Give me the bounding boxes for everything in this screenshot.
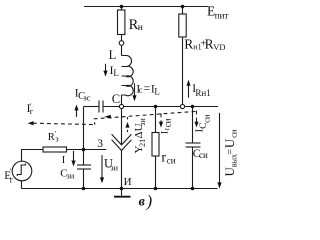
junction dot Cси rail [191, 187, 195, 191]
svg-text:Rн1: Rн1 [195, 88, 210, 98]
label Uзи [104, 157, 119, 173]
label Uвых=Uси rotated [222, 129, 238, 176]
wire R'з to gate stub [67, 149, 107, 151]
dependent source Y21dUзи chevrons [112, 134, 132, 150]
arrow IL [105, 64, 107, 71]
svg-text:r: r [161, 151, 166, 166]
arrow ICзс [76, 110, 78, 117]
junction dot rси rail [154, 187, 158, 191]
svg-text:си: си [199, 150, 208, 160]
svg-text:вых: вых [229, 154, 238, 167]
wire node C to node D [124, 106, 181, 108]
svg-text:=: = [225, 149, 236, 155]
junction dot Cзи rail [82, 187, 86, 191]
arrow IRн1 [188, 86, 190, 98]
resistor R'з [43, 147, 67, 152]
capacitor Cзи [77, 165, 91, 189]
svg-text:зи: зи [66, 170, 74, 180]
label I'г [27, 102, 34, 116]
svg-text:г: г [10, 174, 14, 184]
wire top rail [84, 6, 209, 8]
arrowhead on sloped dashed line [104, 115, 111, 119]
junction dot Y21 rail [120, 187, 124, 191]
svg-text:И: И [124, 176, 132, 188]
svg-text:I: I [62, 155, 66, 166]
label E'г [4, 167, 14, 184]
svg-text:г: г [30, 106, 34, 116]
dashed feedback line right (sloped) [94, 111, 197, 124]
wire bottom rail [22, 188, 218, 190]
label Cси [193, 148, 208, 160]
dashed arrow Irси [160, 113, 162, 122]
label Rн [129, 17, 143, 33]
inductor L [122, 56, 134, 96]
dashed arrow up (Y21 current) [127, 117, 129, 132]
node D circle [180, 104, 184, 108]
label IL [110, 65, 119, 78]
ground [114, 189, 131, 198]
svg-text:зи: зи [138, 118, 147, 126]
resistor rси [152, 107, 159, 189]
dashed feedback line left (I'г) [33, 123, 95, 124]
svg-text:си: си [167, 155, 176, 165]
node junction Rн1 top [181, 5, 185, 9]
svg-text:=: = [144, 83, 151, 95]
step symbol inside source [17, 163, 25, 176]
label Irси rotated [161, 118, 173, 134]
arrowhead I'г [28, 121, 34, 125]
wire node C down to chevron [121, 109, 123, 145]
arrow I (gate current) [73, 151, 75, 161]
svg-text:с: с [139, 85, 143, 95]
svg-text:в: в [139, 194, 146, 209]
label Y21dUзи rotated [133, 118, 147, 154]
svg-text:VD: VD [213, 42, 225, 52]
wire circle to coil [121, 45, 123, 55]
source Eг circle [12, 161, 32, 181]
junction gate node [82, 148, 86, 152]
label rси [161, 151, 175, 166]
svg-text:зи: зи [110, 162, 118, 172]
node junction Cси tap [191, 105, 195, 109]
capacitor Cси [186, 107, 201, 189]
svg-text:21: 21 [138, 139, 147, 147]
svg-text:пит: пит [215, 11, 229, 21]
svg-text:3: 3 [97, 138, 103, 150]
label Eпит [207, 4, 228, 21]
svg-text:R: R [205, 36, 214, 51]
node junction Rн top [120, 5, 124, 9]
capacitor Cзс [84, 101, 120, 113]
svg-text:зс: зс [83, 92, 90, 102]
wire Eг bottom to rail [21, 181, 23, 189]
dashed arrow ICси [196, 111, 198, 123]
svg-text:L: L [109, 48, 117, 62]
label Cзи [60, 168, 75, 181]
svg-text:R: R [184, 36, 193, 51]
node junction rси tap [154, 105, 158, 109]
node C circle [119, 104, 123, 108]
label ICси rotated [194, 114, 212, 132]
label ICзс [75, 88, 91, 103]
svg-text:L: L [113, 68, 119, 78]
svg-text:н: н [138, 23, 143, 33]
label Rн1+RVD [184, 36, 225, 52]
svg-text:си: си [163, 118, 173, 127]
resistor Rн1+RVD [179, 7, 186, 105]
resistor Rн [118, 7, 125, 41]
svg-text:си: си [202, 114, 212, 123]
label R'з [48, 129, 59, 143]
wire Eг top to gate line [22, 150, 44, 162]
svg-text:U: U [222, 138, 237, 148]
wire chevron to rail [121, 150, 123, 188]
wire coil to node C [121, 95, 123, 104]
svg-text:L: L [154, 87, 160, 97]
voltage arrow Uвых [219, 113, 221, 183]
arrow Ic [134, 83, 136, 95]
label IRн1 [192, 83, 210, 98]
svg-text:С: С [112, 92, 120, 106]
label Ic = IL [136, 83, 160, 97]
svg-text:): ) [146, 191, 153, 210]
svg-text:си: си [228, 129, 238, 138]
wire Cзс corner down through gate to Cзи [83, 107, 85, 166]
wire node D to right [185, 106, 218, 108]
voltage arrow Uзи [101, 155, 103, 178]
terminal circle below Rн [119, 41, 124, 46]
